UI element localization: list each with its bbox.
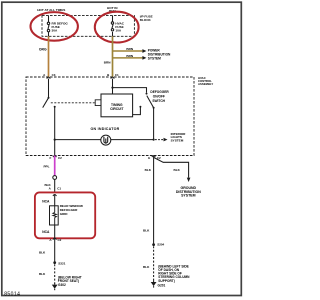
- svg-text:BLK: BLK: [39, 251, 46, 255]
- connector E C2: [148, 156, 161, 160]
- wire branch to ground distribution: [154, 157, 191, 182]
- wire timing circuit to switch fixed contact: [133, 106, 142, 115]
- border frame: [2, 2, 242, 295]
- wire ORG (fuse to A-C3): [39, 36, 49, 77]
- svg-text:ON/OFF: ON/OFF: [153, 95, 165, 99]
- svg-text:BRN: BRN: [104, 61, 111, 65]
- page number 85014: [4, 292, 20, 298]
- inline connector: [53, 176, 57, 180]
- label NCA (top): [42, 200, 50, 204]
- wire BLK to grid: [44, 179, 54, 192]
- label REAR WINDOW DEFOGGER GRID: [60, 204, 83, 216]
- ground G302 symbol: [52, 283, 58, 290]
- svg-text:ORG: ORG: [39, 48, 47, 52]
- dashed linkage to timing circuit: [51, 100, 101, 106]
- red rounded annotation box (defogger grid): [35, 192, 95, 238]
- label INTERIOR LIGHTS SYSTEM: [171, 132, 187, 143]
- label BLK (left column lower): [39, 272, 46, 276]
- label BLK (left column): [39, 251, 46, 255]
- splice S204: [152, 243, 164, 247]
- defogger on/off switch arm: [147, 96, 155, 109]
- label HVAC CONTROL ASSEMBLY: [198, 76, 213, 86]
- svg-text:PPL: PPL: [43, 165, 49, 169]
- label DEFOGGER ON/OFF SWITCH: [150, 90, 169, 103]
- timing circuit box: [101, 94, 133, 117]
- wire E-C2 down: [153, 156, 155, 245]
- splice S321: [53, 261, 65, 265]
- switch (left, part of defogger switch): [43, 97, 56, 108]
- svg-text:C2: C2: [58, 238, 62, 242]
- label BLK (right column lower): [143, 265, 150, 269]
- label I/P FUSE BLOCK: [140, 14, 153, 22]
- wire from A-C3 to switch: [48, 79, 50, 98]
- connector A C2 (grid bottom): [49, 238, 61, 242]
- wire to lamp: [55, 139, 101, 141]
- svg-text:S321: S321: [58, 261, 66, 265]
- I/P fuse block dashed box: [42, 16, 134, 37]
- red ellipse annotation (right fuse): [95, 12, 139, 43]
- defogger on/off switch contact dot: [146, 93, 148, 95]
- label GROUND DISTRIBUTION SYSTEM: [176, 186, 201, 197]
- label BLK right branch: [174, 168, 181, 172]
- wire BRN branch 1 to power distribution: [113, 47, 147, 53]
- svg-text:E: E: [148, 156, 150, 160]
- svg-text:85014: 85014: [4, 292, 20, 298]
- svg-text:S204: S204: [157, 243, 164, 247]
- svg-text:NCA: NCA: [42, 230, 50, 234]
- label POWER DISTRIBUTION SYSTEM: [148, 49, 171, 61]
- svg-text:CIRCUIT: CIRCUIT: [110, 107, 123, 111]
- svg-text:BLK: BLK: [143, 229, 150, 233]
- connector B C1: [107, 73, 119, 79]
- red ellipse annotation (left fuse): [31, 12, 78, 41]
- svg-text:NCA: NCA: [42, 200, 50, 204]
- wire switch to lamp row and F-C2: [54, 107, 56, 156]
- svg-text:C3: C3: [52, 73, 56, 77]
- connector F C2 (left exit): [49, 156, 62, 160]
- wire BRN branch 2 to power distribution: [113, 54, 147, 60]
- junction dot at E-C2 column: [153, 139, 155, 141]
- lamp ON indicator: [101, 135, 111, 145]
- label NCA (bottom): [42, 230, 50, 234]
- wire junction to defogger switch: [113, 88, 147, 93]
- svg-text:SYSTEM: SYSTEM: [148, 56, 161, 60]
- label BLK (right column): [143, 229, 150, 233]
- label ground location G201: [158, 264, 191, 287]
- svg-text:SUPPORT): SUPPORT): [158, 279, 174, 283]
- connector hook at grid top: [53, 195, 57, 206]
- dashed wire to G302: [54, 264, 56, 283]
- wire BRN (fuse to B-C1): [104, 36, 113, 77]
- svg-text:BRN: BRN: [126, 54, 133, 58]
- junction node: [111, 87, 113, 89]
- fuse RR DEFOG 30A: [47, 16, 49, 37]
- svg-text:BLOCK: BLOCK: [140, 18, 152, 22]
- svg-text:G201: G201: [158, 284, 166, 288]
- dashed stub to interior lights arrow: [155, 138, 168, 142]
- svg-text:BLK: BLK: [174, 168, 181, 172]
- svg-text:C1: C1: [115, 73, 119, 77]
- wire B-C1 down to timing circuit: [112, 79, 114, 94]
- wire lamp to junction: [111, 139, 154, 141]
- svg-text:BRN: BRN: [126, 47, 133, 51]
- connector A C3: [43, 73, 56, 79]
- wire switch to interior lights junction: [153, 108, 155, 140]
- dashed wire to G201: [153, 246, 155, 280]
- wire grid bottom: [54, 225, 56, 263]
- rear window defogger grid element: [50, 206, 59, 225]
- connector A C1 (grid top): [49, 187, 62, 191]
- svg-text:SYSTEM: SYSTEM: [181, 194, 195, 198]
- label HOT AT ALL TIMES: [37, 8, 65, 12]
- label HOT IN RUN: [107, 6, 118, 13]
- ground G201 symbol: [151, 281, 157, 288]
- fuse HVAC 10A: [111, 16, 113, 37]
- svg-text:F: F: [49, 156, 51, 160]
- wire PPL: [43, 156, 54, 176]
- junction dot: [54, 139, 56, 141]
- label ground location G302: [58, 276, 82, 287]
- svg-text:SWITCH: SWITCH: [152, 99, 165, 103]
- svg-text:ASSEMBLY: ASSEMBLY: [198, 82, 213, 86]
- svg-text:BLK: BLK: [39, 272, 46, 276]
- svg-text:GRID: GRID: [60, 212, 69, 216]
- svg-text:C1: C1: [57, 187, 61, 191]
- svg-text:BLK: BLK: [143, 265, 150, 269]
- svg-text:BLK: BLK: [145, 168, 152, 172]
- label ON INDICATOR: [90, 127, 119, 131]
- svg-text:30A: 30A: [52, 29, 58, 33]
- svg-text:ON INDICATOR: ON INDICATOR: [90, 127, 119, 131]
- HVAC control assembly dashed box: [26, 77, 194, 156]
- svg-text:SYSTEM: SYSTEM: [171, 139, 184, 143]
- label BLK left: [145, 168, 152, 172]
- svg-text:G302: G302: [58, 283, 66, 287]
- svg-text:10A: 10A: [115, 28, 121, 32]
- svg-text:DEFOGGER: DEFOGGER: [150, 90, 169, 94]
- svg-text:C2: C2: [58, 156, 62, 160]
